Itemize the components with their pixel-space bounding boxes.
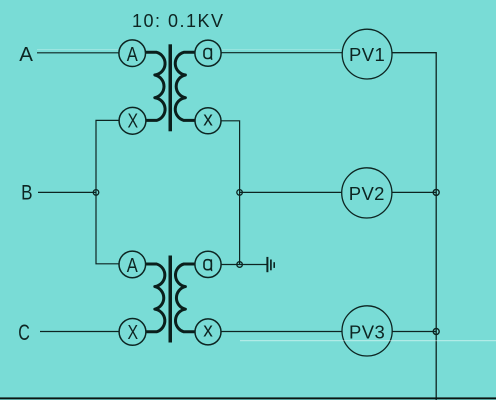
svg-text:B: B [21,181,32,204]
transformer T1 terminal x circle [195,108,221,134]
wire phase C to T2 primary X [40,331,119,333]
wire PV1 to right bus corner [392,53,436,400]
wire ground node to ground symbol [240,264,267,266]
svg-text:A: A [19,43,33,66]
transformer T2 terminal A circle [119,251,146,278]
ground symbol bar 1 [266,257,268,272]
transformer T2 primary winding [145,264,165,332]
wire phase B to left bus node [38,191,96,193]
node at right bus and PV3 [433,329,439,335]
wire phase A to T1 primary terminal A [37,52,119,54]
voltmeter PV2 circle [342,168,392,218]
voltmeter PV1 circle [342,29,392,79]
transformer T1 core [169,44,173,131]
transformer T2 secondary winding [175,264,195,332]
artifact highlight line below PV3 wire [240,340,496,342]
transformer T2 terminal X circle [119,319,146,346]
node at right bus and PV2 [433,189,439,195]
transformer T1 terminal a circle [195,40,221,66]
transformer T1 terminal X circle [119,107,146,134]
transformer T1 primary winding [145,52,165,120]
wire PV2 to right bus [392,191,436,193]
bottom border line [0,397,496,399]
wire PV3 to right bus [392,331,436,333]
svg-text:X: X [128,321,139,344]
wire mid bus node to PV2 [240,191,342,193]
wire mid bus: T1 x terminal down to ground node [221,121,240,265]
artifact highlight line above phase A wire [37,49,118,51]
transformer T2 terminal a letter [204,259,212,270]
svg-text:X: X [128,110,139,133]
svg-text:PV3: PV3 [349,322,385,343]
transformer T1 terminal A circle [119,40,146,67]
transformer T2 terminal a circle [195,251,221,277]
svg-text:x: x [203,107,213,130]
node at B and left bus [93,190,99,196]
ground symbol bar 2 [270,260,272,271]
svg-text:C: C [18,320,30,345]
ground symbol bar 3 [273,262,275,268]
svg-text:10: 0.1KV: 10: 0.1KV [132,11,225,31]
wire T2 secondary x to PV3 [221,331,342,333]
svg-text:A: A [127,255,139,277]
node at mid bus and PV2 branch [237,190,243,196]
node at ground branch [237,262,243,268]
wire T2 secondary a to ground node [221,264,240,266]
transformer T1 secondary winding [175,52,195,120]
transformer T2 terminal x circle [195,319,221,345]
transformer T2 core [169,256,173,343]
transformer T1 terminal a letter [204,48,212,59]
svg-text:A: A [127,44,139,66]
svg-text:x: x [203,319,213,342]
wire T1 secondary a to PV1 [221,52,342,54]
wire left bus: T1 X terminal down to T2 A terminal [96,120,120,263]
svg-text:PV1: PV1 [349,44,385,65]
artifact highlight line above T1 secondary wire [222,49,340,51]
svg-text:PV2: PV2 [349,183,385,204]
voltmeter PV3 circle [342,306,392,356]
